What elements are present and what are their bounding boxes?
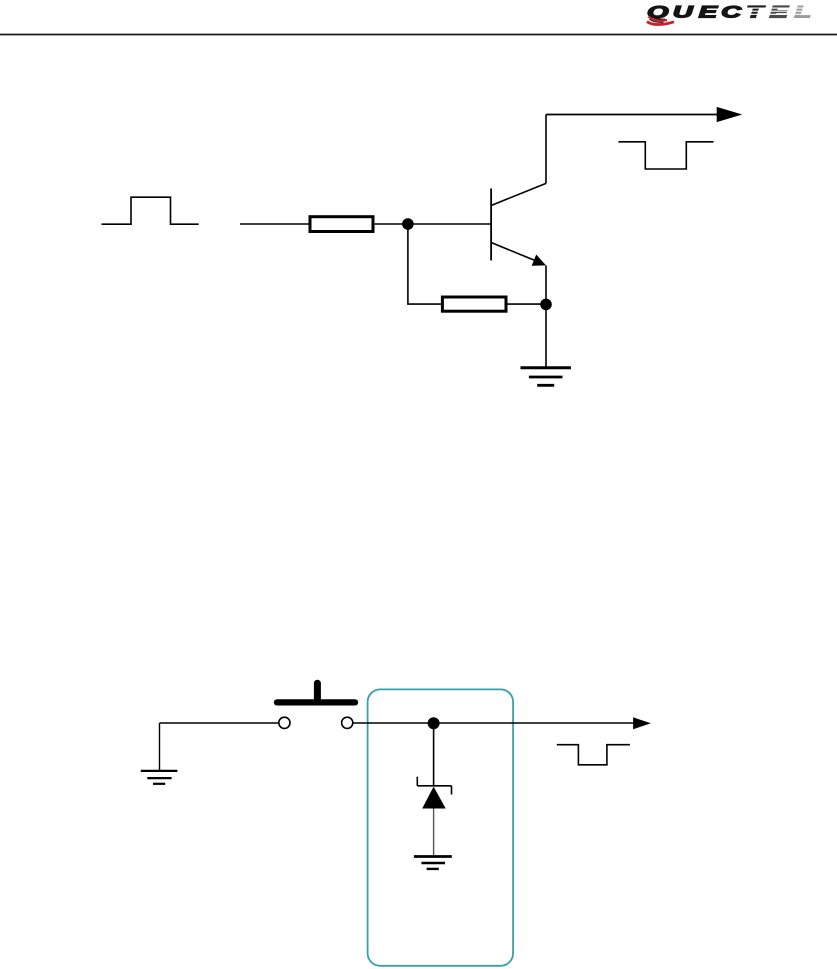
- TVS diode D1 (zener): [417, 777, 451, 809]
- switch S1 (push button): [277, 683, 355, 728]
- output pulse waveform (circuit 2): [557, 745, 630, 765]
- wire switch to output arrow: [353, 722, 634, 724]
- ground (left, circuit 2): [141, 723, 178, 784]
- output arrow (circuit 2): [633, 717, 651, 729]
- wire R1 to base node: [375, 223, 491, 225]
- wire R2 to emitter node: [508, 303, 547, 305]
- input pulse waveform: [102, 197, 199, 224]
- header rule: [0, 34, 837, 36]
- wire ground to switch: [160, 722, 279, 724]
- transistor Q1: [491, 183, 546, 265]
- wire collector up: [545, 115, 547, 184]
- svg-text:U: U: [673, 2, 695, 21]
- svg-text:E: E: [699, 2, 718, 21]
- node A (base junction): [402, 218, 414, 230]
- resistor R2: [442, 297, 506, 311]
- output pulse waveform (circuit 1): [618, 142, 713, 169]
- resistor R1: [310, 217, 373, 232]
- ground (TVS): [414, 857, 452, 869]
- wire node C to TVS diode: [433, 723, 435, 786]
- node C (TVS junction): [428, 717, 440, 729]
- node B (emitter junction): [540, 299, 552, 311]
- output arrow (circuit 1): [546, 107, 742, 122]
- wire node B to ground: [545, 304, 547, 366]
- ground (circuit 1): [521, 368, 571, 386]
- wire input to R1: [240, 223, 309, 225]
- wire node A down to R2: [408, 224, 441, 304]
- wire emitter to node B: [545, 265, 547, 304]
- TVS protection box: [368, 689, 513, 965]
- Quectel logo: [647, 2, 818, 25]
- svg-text:C: C: [721, 2, 741, 21]
- wire TVS diode to ground: [433, 809, 435, 856]
